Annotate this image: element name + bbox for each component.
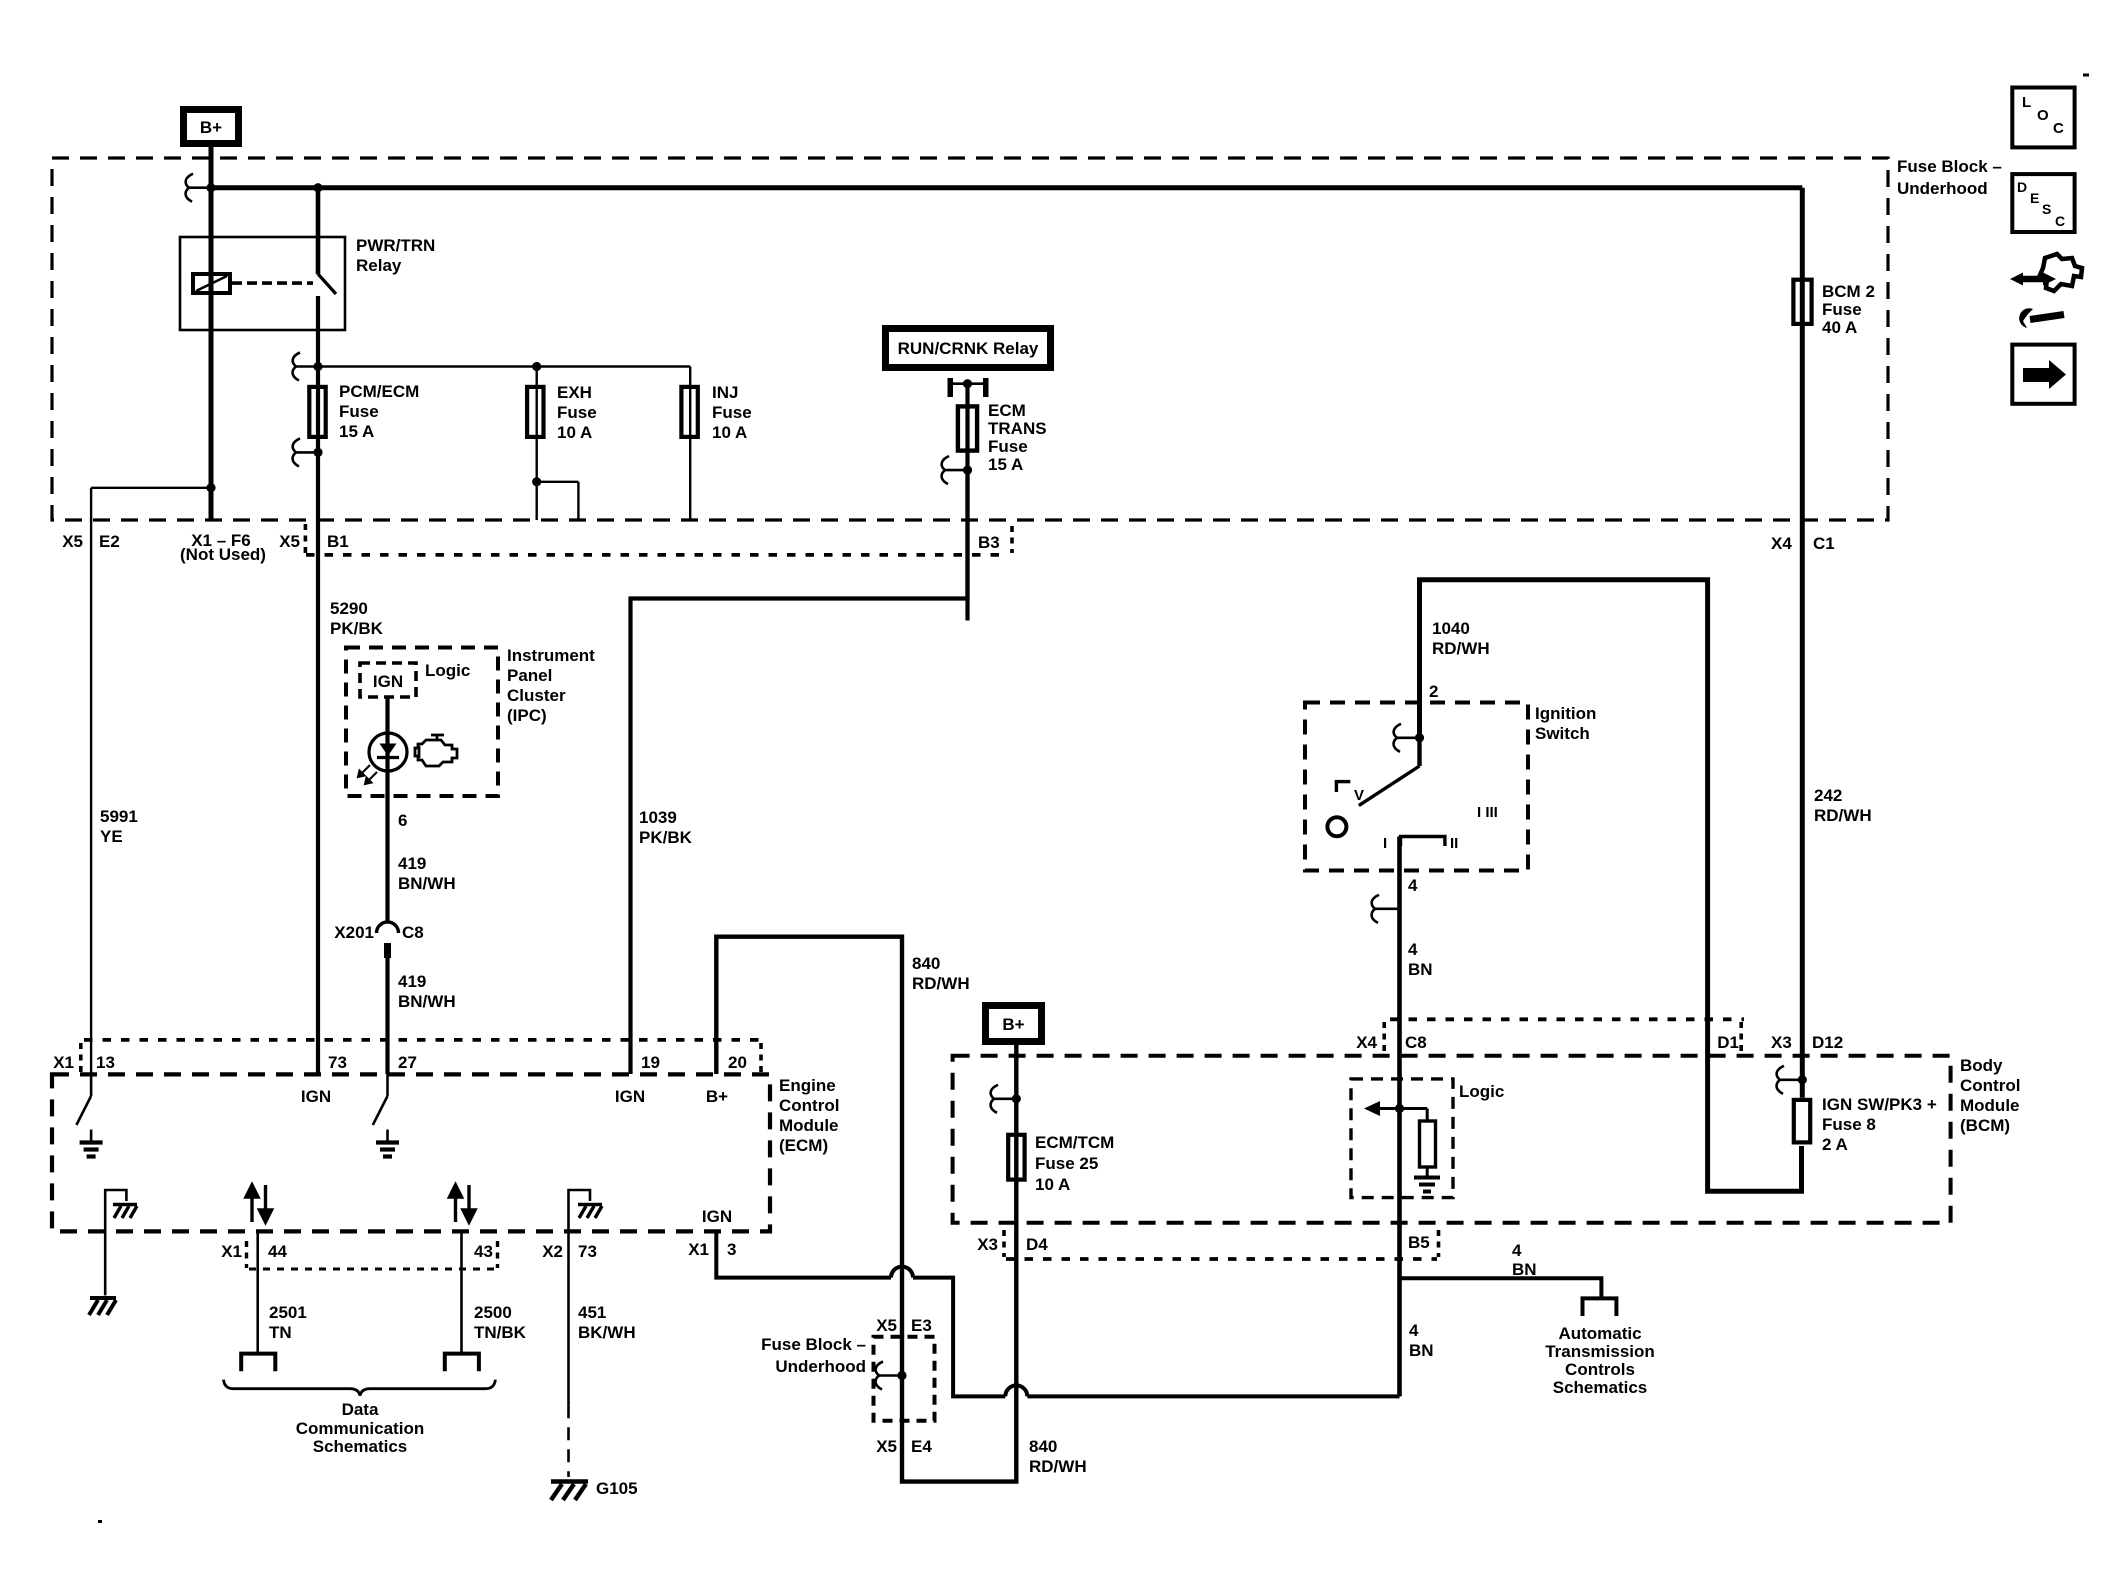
node E3/E4 [897,1371,906,1380]
ignition switch arm [1417,738,1421,766]
svg-text:840: 840 [1029,1437,1057,1456]
svg-text:PCM/ECM: PCM/ECM [339,382,419,401]
svg-text:Fuse: Fuse [1822,300,1862,319]
svg-text:Fuse 25: Fuse 25 [1035,1154,1098,1173]
separator right of 43 [496,1241,499,1268]
IGN SW/PK3 Fuse 8 2 A [1794,1100,1810,1143]
off-page bracket pin 43 [445,1354,479,1372]
wire 840 RD/WH loop ECM pin20 to ECM/TCM fuse [716,937,1016,1482]
svg-text:ECM/TCM: ECM/TCM [1035,1133,1114,1152]
svg-text:G105: G105 [596,1479,638,1498]
separator X4/C8 [1382,1022,1386,1052]
engine MIL icon [415,735,457,766]
svg-text:Logic: Logic [425,661,470,680]
separator B5 [1437,1230,1441,1257]
ECM/TCM Fuse 25 10 A [1008,1135,1024,1180]
B+ power symbol box (top left) [184,110,239,144]
svg-text:C8: C8 [1405,1033,1427,1052]
relay coil K1 [193,274,230,293]
svg-text:TN/BK: TN/BK [474,1323,527,1342]
svg-text:Cluster: Cluster [507,686,566,705]
svg-text:Body: Body [1960,1056,2003,1075]
svg-text:X5: X5 [62,532,83,551]
Instrument Panel Cluster dashed box [346,648,498,797]
svg-text:13: 13 [96,1053,115,1072]
Fuse Block - Underhood dashed box [52,158,1888,520]
node below mid B+ [1012,1094,1021,1103]
svg-text:X3: X3 [1771,1033,1792,1052]
separator B3 [1010,526,1014,553]
svg-text:X5: X5 [876,1437,897,1456]
wire 1039 PK/BK from B3 to ECM pin 19 [631,470,968,1074]
svg-text:Fuse Block –: Fuse Block – [1897,157,2002,176]
svg-text:BN: BN [1512,1260,1537,1279]
svg-text:PK/BK: PK/BK [639,828,693,847]
svg-text:EXH: EXH [557,383,592,402]
svg-text:Fuse 8: Fuse 8 [1822,1115,1876,1134]
svg-text:Logic: Logic [1459,1082,1504,1101]
wire 5991 branch horizontal [91,487,211,489]
svg-text:Fuse: Fuse [557,403,597,422]
svg-text:I III: I III [1477,804,1498,821]
svg-text:(ECM): (ECM) [779,1136,828,1155]
node logic tap [1395,1104,1404,1113]
ECM TRANS Fuse 15 A [958,406,977,450]
ECM internal ground stub left [105,1190,126,1295]
chassis ground below ECM [89,1298,116,1315]
stray mark bottom left [98,1520,102,1523]
svg-text:TRANS: TRANS [988,419,1047,438]
svg-text:B3: B3 [978,533,1000,552]
svg-text:Ignition: Ignition [1535,704,1596,723]
wrench icon [2030,315,2064,320]
svg-text:BK/WH: BK/WH [578,1323,636,1342]
svg-text:Communication: Communication [296,1419,424,1438]
logic input arrow [1364,1101,1427,1116]
svg-text:C: C [2055,213,2065,229]
ground symbol pin 13 [80,1143,103,1157]
svg-text:1040: 1040 [1432,619,1470,638]
svg-text:20: 20 [728,1053,747,1072]
svg-text:Fuse: Fuse [988,437,1028,456]
svg-text:RD/WH: RD/WH [1432,639,1490,658]
ground G105 [551,1482,588,1501]
svg-text:Module: Module [779,1116,839,1135]
clip ignition pin 4 [1372,895,1398,923]
node below PCM/ECM fuse [313,448,322,457]
svg-text:E2: E2 [99,532,120,551]
svg-text:2: 2 [1429,682,1438,701]
svg-text:Fuse Block –: Fuse Block – [761,1335,866,1354]
svg-text:44: 44 [268,1242,287,1261]
node fuse feeder junction [313,362,322,371]
clip BCM D12 [1777,1066,1803,1094]
svg-text:43: 43 [474,1242,493,1261]
node 5991 branch junction [206,483,215,492]
node below ECM TRANS fuse [963,466,972,475]
wire 5991 YE to ECM pin 13 [90,488,92,1074]
svg-text:C: C [2053,120,2064,137]
svg-text:3: 3 [727,1240,736,1259]
svg-text:Data: Data [342,1400,379,1419]
wire relay output to ECM pin 73 [316,296,320,1074]
svg-text:2500: 2500 [474,1303,512,1322]
svg-text:4: 4 [1408,940,1418,959]
svg-text:PWR/TRN: PWR/TRN [356,236,435,255]
node EXH feeder junction [532,362,541,371]
svg-text:X5: X5 [279,532,300,551]
off-page bracket pin 44 [241,1354,275,1372]
svg-text:Switch: Switch [1535,724,1590,743]
svg-text:Module: Module [1960,1096,2020,1115]
inline connector X201 C8 [377,922,399,933]
svg-text:E3: E3 [911,1316,932,1335]
svg-text:15 A: 15 A [988,455,1023,474]
node BCM D12 [1798,1075,1807,1084]
svg-text:Transmission: Transmission [1545,1342,1655,1361]
Fuse Block - Underhood pass-through dashed box E3/E4 [874,1337,935,1421]
node below EXH fuse [532,477,541,486]
fuse block 2 / BCM shared dashed box [953,1056,1951,1223]
svg-text:10 A: 10 A [712,423,747,442]
svg-text:IGN: IGN [702,1207,732,1226]
RUN/CRNK Relay label box [886,329,1051,368]
brace for data communication [224,1380,496,1396]
svg-text:BN/WH: BN/WH [398,992,456,1011]
svg-text:X1: X1 [53,1053,74,1072]
wire fuse feeder horizontal [318,365,690,367]
logic pull resistor [1426,1109,1429,1122]
separator left of 44 [245,1241,248,1268]
svg-text:Relay: Relay [356,256,402,275]
svg-text:Instrument: Instrument [507,646,595,665]
EXH Fuse 10 A [527,387,543,437]
svg-text:5290: 5290 [330,599,368,618]
svg-text:ECM: ECM [988,401,1026,420]
wire INJ fuse drop [689,367,691,521]
BCM 2 Fuse 40 A [1793,280,1811,324]
svg-text:BN: BN [1408,960,1433,979]
node ignition pin 2 [1415,733,1424,742]
svg-text:15 A: 15 A [339,422,374,441]
svg-text:73: 73 [578,1242,597,1261]
wire B+ feed vertical x=211 [209,147,214,520]
svg-text:Underhood: Underhood [775,1357,866,1376]
svg-text:X3: X3 [977,1235,998,1254]
wire 1040 RD/WH loop ignition to BCM D1 [1420,580,1802,1191]
ECM bottom connector strip between 44 and 43 [249,1268,498,1271]
svg-text:(IPC): (IPC) [507,706,547,725]
connector strip X3/D4..B5 dotted line [1006,1257,1437,1261]
IGN logic box [360,663,416,697]
separator D1 [1739,1022,1743,1052]
svg-text:BN: BN [1409,1341,1434,1360]
svg-text:Automatic: Automatic [1558,1324,1641,1343]
svg-text:X201: X201 [334,923,374,942]
ground symbol pin 27 [376,1143,399,1157]
svg-text:10 A: 10 A [557,423,592,442]
BCM connector dotted strip X4 [1390,1017,1744,1021]
svg-text:IGN: IGN [373,672,403,691]
indicator lamp LED circle [369,733,407,771]
svg-text:C8: C8 [402,923,424,942]
Ignition Switch dashed box [1305,703,1528,871]
svg-text:RUN/CRNK Relay: RUN/CRNK Relay [898,339,1039,358]
indicator light arrows [358,765,377,784]
svg-text:27: 27 [398,1053,417,1072]
svg-text:X2: X2 [542,1242,563,1261]
node bus/relay-switch junction [313,183,322,192]
svg-text:X1: X1 [688,1240,709,1259]
svg-text:E4: E4 [911,1437,932,1456]
svg-text:D12: D12 [1812,1033,1843,1052]
svg-text:5991: 5991 [100,807,138,826]
svg-text:840: 840 [912,954,940,973]
svg-text:Engine: Engine [779,1076,836,1095]
svg-text:V: V [1354,787,1364,804]
svg-text:YE: YE [100,827,123,846]
wire B+ bus horizontal y=188 [211,185,1802,190]
svg-text:X4: X4 [1356,1033,1377,1052]
ground symbol in logic box [1414,1178,1440,1192]
B+ power symbol box (middle) [986,1006,1042,1042]
svg-text:Schematics: Schematics [313,1437,408,1456]
svg-text:B5: B5 [1408,1233,1430,1252]
stray mark top right [2083,74,2089,77]
diagnostic car icon [2040,254,2082,291]
ECM internal switch pin 13 [90,1074,93,1096]
svg-text:4: 4 [1512,1241,1522,1260]
svg-text:PK/BK: PK/BK [330,619,384,638]
svg-text:Controls: Controls [1565,1360,1635,1379]
svg-text:IGN SW/PK3 +: IGN SW/PK3 + [1822,1095,1937,1114]
arrow icon box [2012,345,2074,404]
svg-text:4: 4 [1408,876,1418,895]
clip ignition pin 2 [1394,724,1420,752]
Logic dashed box in BCM [1351,1079,1453,1198]
wire ECM TRANS fuse feed [965,384,969,621]
svg-text:6: 6 [398,811,407,830]
svg-text:19: 19 [641,1053,660,1072]
svg-text:E: E [2030,190,2039,206]
svg-text:X1: X1 [221,1242,242,1261]
relay switch arm [316,188,321,275]
svg-text:242: 242 [1814,786,1842,805]
svg-text:I: I [1383,835,1387,852]
off-page bracket auto trans [1583,1298,1617,1316]
ECM internal switch pin 27 [386,1074,389,1096]
wire EXH branch to connector [536,482,538,520]
DESC icon box [2012,174,2074,232]
clip below mid B+ [991,1085,1017,1113]
wire 4 BN branch to auto trans [1400,1278,1602,1298]
separator X3/D4 [1002,1230,1006,1257]
svg-text:B+: B+ [706,1087,728,1106]
svg-text:2501: 2501 [269,1303,307,1322]
svg-text:S: S [2042,201,2051,217]
svg-text:IGN: IGN [615,1087,645,1106]
separator X1/13 [79,1043,83,1072]
svg-text:419: 419 [398,854,426,873]
svg-text:B1: B1 [327,532,349,551]
svg-text:1039: 1039 [639,808,677,827]
svg-text:Control: Control [1960,1076,2020,1095]
chassis ground inside ECM [113,1205,137,1219]
wire IPC indicator [385,697,389,922]
svg-text:IGN: IGN [301,1087,331,1106]
svg-text:BCM 2: BCM 2 [1822,282,1875,301]
svg-text:2 A: 2 A [1822,1135,1848,1154]
svg-text:73: 73 [328,1053,347,1072]
svg-text:II: II [1450,835,1458,852]
ignition contact bridge [1401,837,1445,847]
ECM connector dotted strip X1/X2 [84,1038,759,1042]
INJ Fuse 10 A [681,387,697,437]
hop over 840 wire [891,1267,913,1278]
relay dashed actuator link [232,281,313,285]
wire 2501 TN pin 44 [256,1231,259,1354]
svg-text:O: O [2037,107,2049,124]
serial data arrows pin 44 [246,1185,272,1222]
chassis ground at X2 stub [578,1205,602,1219]
svg-text:L: L [2022,94,2031,111]
node bus/coil junction [206,183,215,192]
svg-text:Control: Control [779,1096,839,1115]
wire 419 BN/WH to ECM pin 27 [385,958,389,1074]
svg-text:RD/WH: RD/WH [912,974,970,993]
svg-text:419: 419 [398,972,426,991]
svg-text:X4: X4 [1771,534,1792,553]
svg-text:BN/WH: BN/WH [398,874,456,893]
wire EXH fuse drop [536,367,538,482]
wire 2500 TN/BK pin 43 [460,1231,463,1354]
svg-text:B+: B+ [1002,1015,1024,1034]
serial data arrows pin 43 [450,1185,476,1222]
ECM internal ground stub X2/73 [569,1190,591,1231]
svg-text:INJ: INJ [712,383,738,402]
svg-text:40 A: 40 A [1822,318,1857,337]
svg-text:(BCM): (BCM) [1960,1116,2010,1135]
ignition OFF position circle [1327,817,1346,836]
clip below ECM TRANS fuse [942,456,968,484]
svg-text:(Not Used): (Not Used) [180,545,266,564]
clip at bus junction [186,174,211,202]
svg-text:Fuse: Fuse [339,402,379,421]
LOC icon box [2012,88,2074,148]
svg-text:4: 4 [1409,1321,1419,1340]
wire 451 BK/WH [567,1231,570,1405]
svg-text:C1: C1 [1813,534,1835,553]
separator X5/B1 [304,524,308,553]
svg-text:RD/WH: RD/WH [1814,806,1872,825]
connector strip X5/B1..B3 dotted line [306,553,1007,557]
clip above PCM/ECM fuse [293,353,318,381]
PWR/TRN Relay box [180,237,345,330]
relay terminal bracket [948,378,954,397]
clip inside E3/E4 box [876,1362,902,1390]
svg-text:D4: D4 [1026,1235,1048,1254]
wire 4 BN ignition to BCM C8 [1397,837,1402,1397]
ignition contact IV [1335,780,1351,783]
node relay terminal [963,379,972,388]
svg-text:Schematics: Schematics [1553,1378,1648,1397]
svg-text:RD/WH: RD/WH [1029,1457,1087,1476]
hop over ECM/TCM fuse wire [1005,1385,1027,1396]
svg-text:Fuse: Fuse [712,403,752,422]
svg-text:D1: D1 [1717,1033,1739,1052]
svg-text:Underhood: Underhood [1897,179,1988,198]
wire 242 RD/WH BCM2 fuse to BCM D12 [1800,188,1805,1098]
PCM/ECM Fuse 15 A [309,387,325,437]
svg-text:B+: B+ [200,118,222,137]
svg-text:10 A: 10 A [1035,1175,1070,1194]
wire IGN ECM pin 3 to BCM B5 branch [716,1231,891,1278]
clip below PCM/ECM fuse [293,438,318,466]
svg-text:X5: X5 [876,1316,897,1335]
svg-text:TN: TN [269,1323,292,1342]
Engine Control Module dashed box [52,1074,770,1231]
svg-text:Panel: Panel [507,666,552,685]
separator right of 20 [759,1043,763,1072]
wire 451 dashed to G105 [567,1405,570,1477]
svg-text:D: D [2017,179,2027,195]
svg-text:451: 451 [578,1303,606,1322]
